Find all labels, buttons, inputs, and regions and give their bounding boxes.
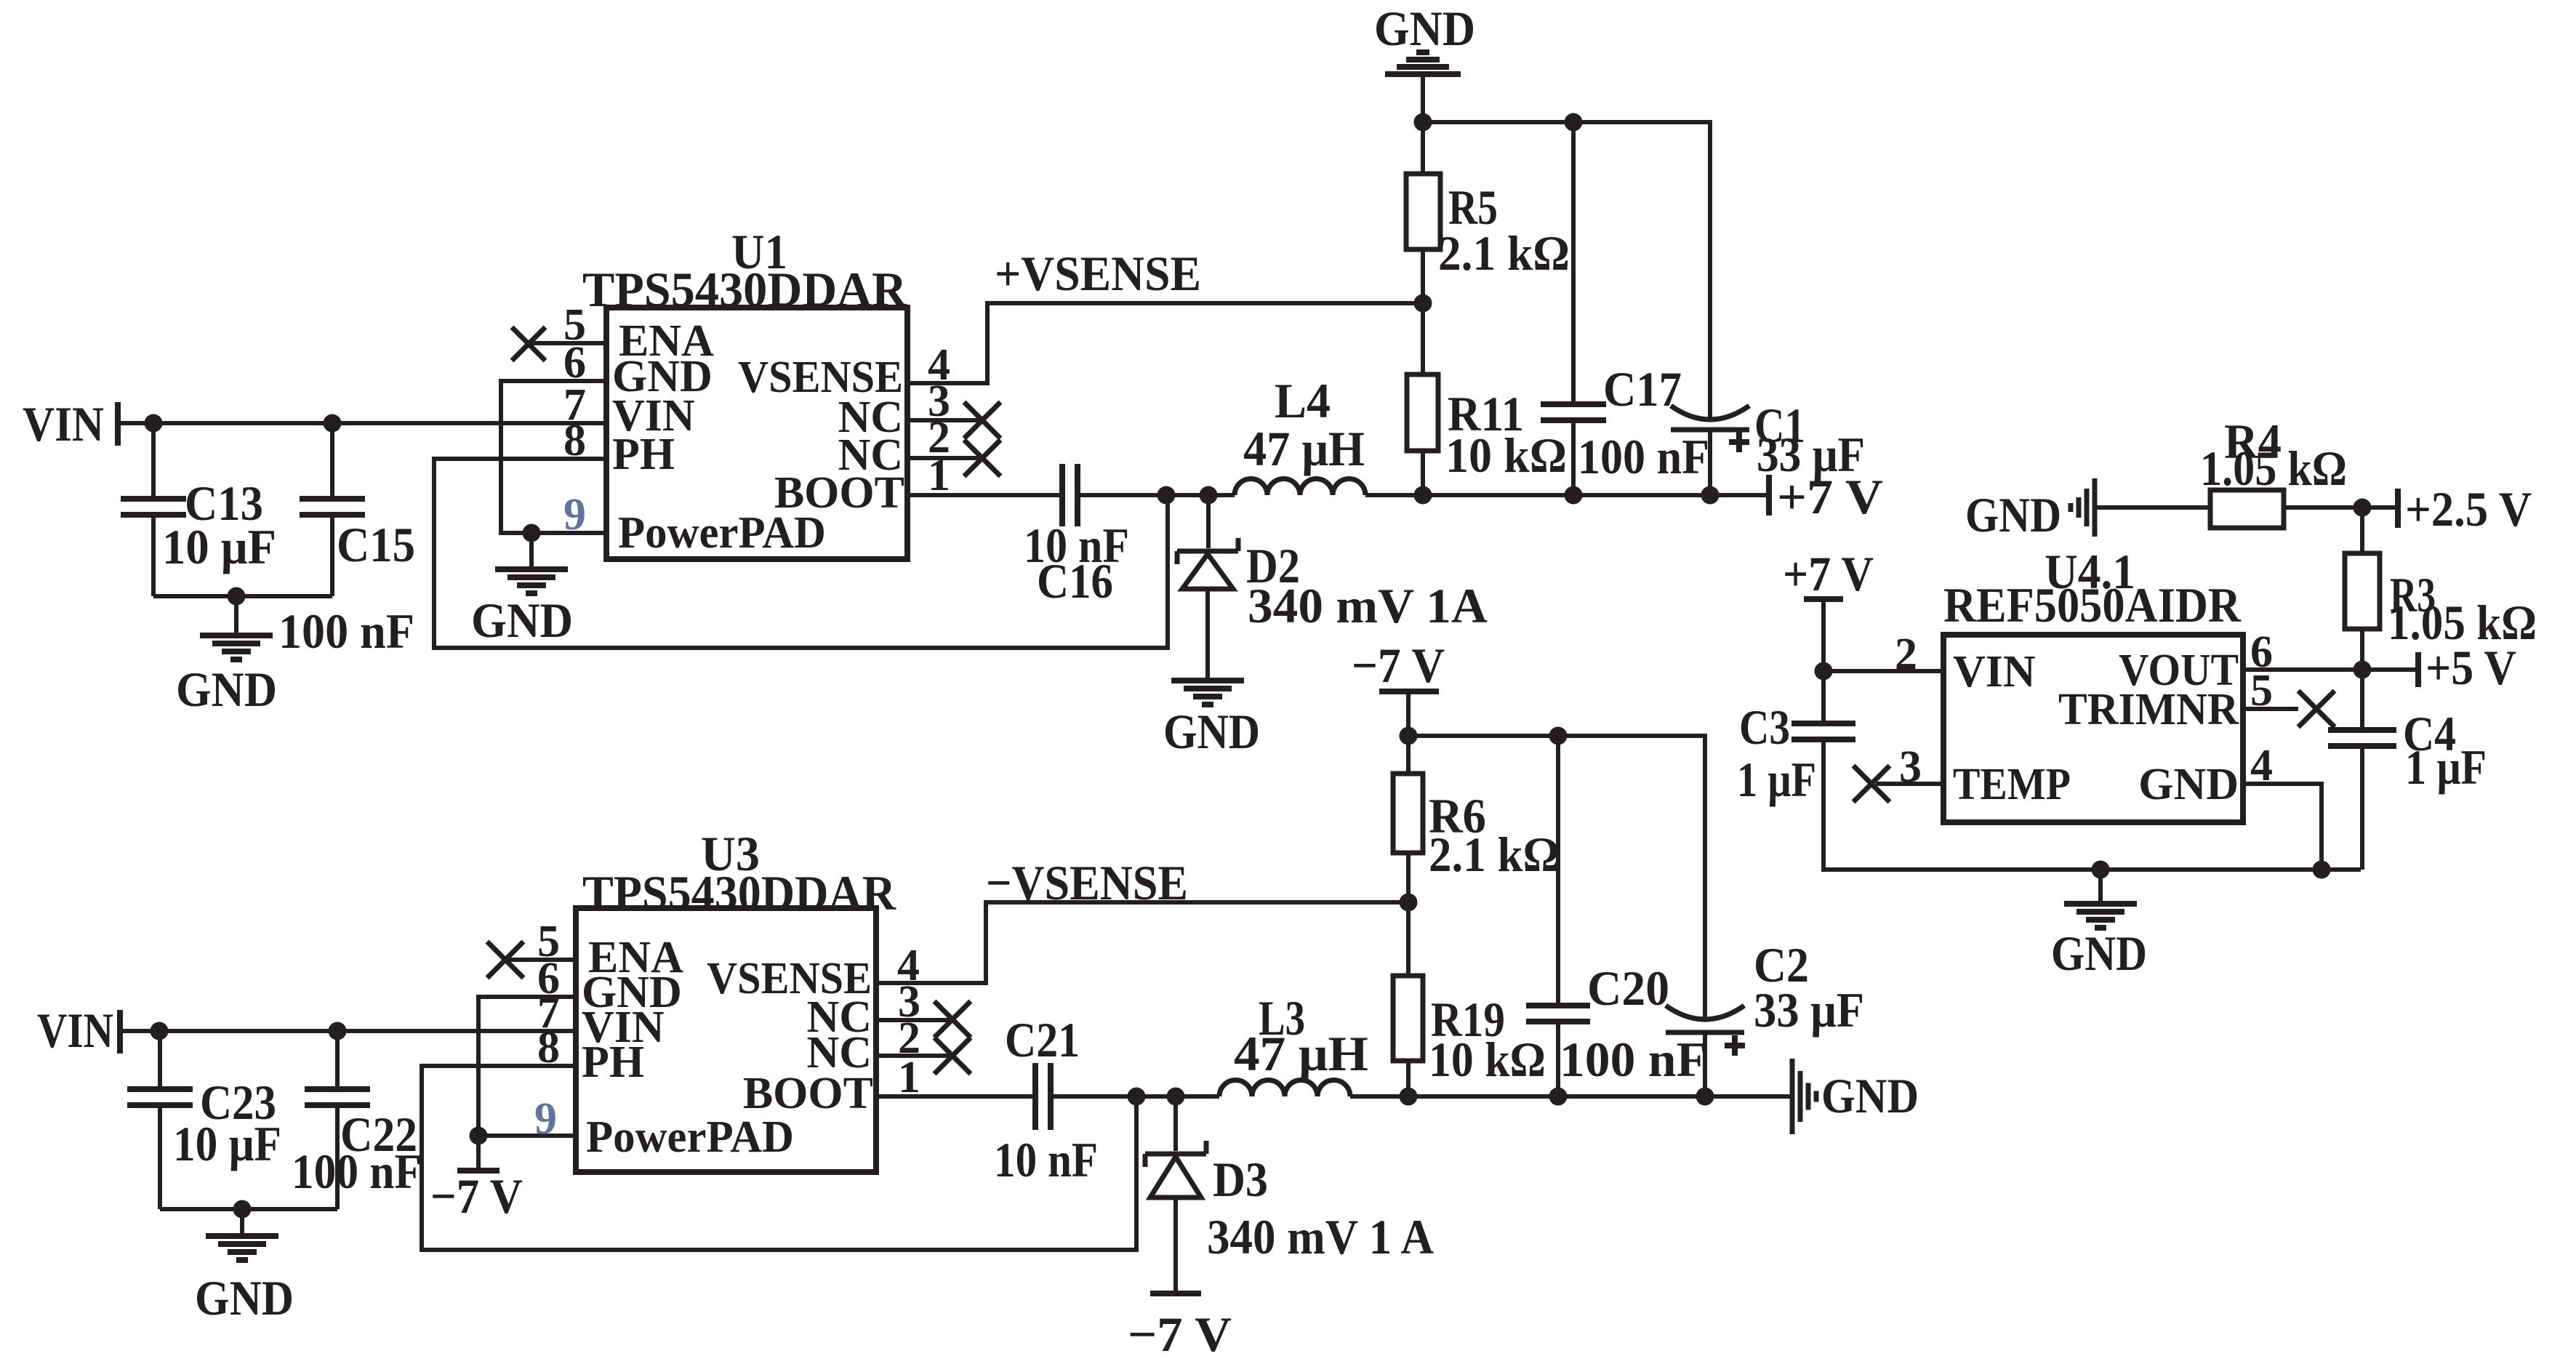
svg-text:1 μF: 1 μF xyxy=(2405,739,2487,795)
svg-text:100 nF: 100 nF xyxy=(292,1144,422,1199)
svg-text:+VSENSE: +VSENSE xyxy=(995,246,1201,301)
svg-text:PowerPAD: PowerPAD xyxy=(586,1112,794,1162)
svg-text:9: 9 xyxy=(534,1094,557,1144)
svg-text:47 μH: 47 μH xyxy=(1243,421,1365,476)
svg-text:1.05 kΩ: 1.05 kΩ xyxy=(2388,595,2537,650)
svg-text:+2.5 V: +2.5 V xyxy=(2405,481,2532,537)
svg-text:8: 8 xyxy=(537,1023,560,1072)
svg-text:PH: PH xyxy=(582,1038,644,1087)
svg-text:1 μF: 1 μF xyxy=(1737,752,1816,807)
svg-text:3: 3 xyxy=(1899,742,1922,792)
svg-text:C17: C17 xyxy=(1603,361,1682,417)
svg-text:TRIMNR: TRIMNR xyxy=(2058,685,2239,734)
svg-text:GND: GND xyxy=(195,1270,294,1325)
svg-text:VIN: VIN xyxy=(1953,647,2036,697)
svg-text:33 μF: 33 μF xyxy=(1754,982,1864,1038)
svg-text:C20: C20 xyxy=(1587,960,1669,1016)
svg-text:−7 V: −7 V xyxy=(1352,638,1445,693)
svg-text:TPS5430DDAR: TPS5430DDAR xyxy=(582,262,907,317)
svg-text:PowerPAD: PowerPAD xyxy=(618,508,826,558)
svg-text:BOOT: BOOT xyxy=(743,1069,873,1118)
svg-text:10 nF: 10 nF xyxy=(994,1132,1098,1187)
svg-text:100 nF: 100 nF xyxy=(1560,1032,1707,1087)
svg-text:2.1 kΩ: 2.1 kΩ xyxy=(1429,827,1560,882)
svg-text:C16: C16 xyxy=(1037,553,1113,609)
svg-text:C15: C15 xyxy=(337,517,415,572)
svg-text:100 nF: 100 nF xyxy=(1578,429,1709,484)
svg-text:−7 V: −7 V xyxy=(430,1168,523,1224)
svg-text:GND: GND xyxy=(176,662,277,717)
svg-text:1: 1 xyxy=(898,1053,920,1102)
svg-text:GND: GND xyxy=(2138,760,2239,809)
svg-text:D3: D3 xyxy=(1213,1152,1268,1207)
svg-text:8: 8 xyxy=(563,416,586,465)
svg-text:340 mV 1A: 340 mV 1A xyxy=(1248,578,1488,633)
svg-text:1: 1 xyxy=(928,451,950,500)
svg-text:VIN: VIN xyxy=(23,396,104,452)
svg-text:+7 V: +7 V xyxy=(1783,546,1874,601)
svg-text:TPS5430DDAR: TPS5430DDAR xyxy=(582,865,896,920)
svg-text:47 μH: 47 μH xyxy=(1234,1026,1368,1081)
svg-text:9: 9 xyxy=(563,490,586,539)
svg-text:10 kΩ: 10 kΩ xyxy=(1429,1032,1546,1087)
svg-text:5: 5 xyxy=(2250,666,2273,715)
svg-text:+7 V: +7 V xyxy=(1777,469,1883,524)
svg-text:2: 2 xyxy=(1895,630,1917,679)
svg-text:GND: GND xyxy=(2051,926,2147,981)
svg-text:GND: GND xyxy=(1163,704,1260,759)
svg-text:340 mV 1 A: 340 mV 1 A xyxy=(1207,1209,1434,1264)
svg-text:VIN: VIN xyxy=(37,1003,113,1058)
svg-text:−VSENSE: −VSENSE xyxy=(986,855,1188,910)
svg-text:4: 4 xyxy=(2250,741,2273,790)
svg-text:GND: GND xyxy=(1374,1,1475,56)
svg-text:100 nF: 100 nF xyxy=(278,603,414,659)
svg-text:TEMP: TEMP xyxy=(1953,760,2071,809)
svg-text:PH: PH xyxy=(612,430,675,479)
svg-text:10 kΩ: 10 kΩ xyxy=(1445,428,1567,483)
svg-text:REF5050AIDR: REF5050AIDR xyxy=(1943,577,2242,633)
svg-text:2.1 kΩ: 2.1 kΩ xyxy=(1438,225,1570,281)
svg-text:−7 V: −7 V xyxy=(1128,1307,1232,1362)
svg-text:10 μF: 10 μF xyxy=(162,519,276,574)
svg-text:GND: GND xyxy=(1821,1068,1919,1123)
svg-text:10 μF: 10 μF xyxy=(173,1116,281,1171)
svg-text:L4: L4 xyxy=(1275,373,1331,428)
svg-text:C3: C3 xyxy=(1739,699,1790,755)
svg-text:GND: GND xyxy=(1965,487,2061,542)
svg-text:C21: C21 xyxy=(1005,1012,1080,1067)
svg-text:GND: GND xyxy=(471,593,573,648)
svg-text:1.05 kΩ: 1.05 kΩ xyxy=(2200,441,2347,496)
